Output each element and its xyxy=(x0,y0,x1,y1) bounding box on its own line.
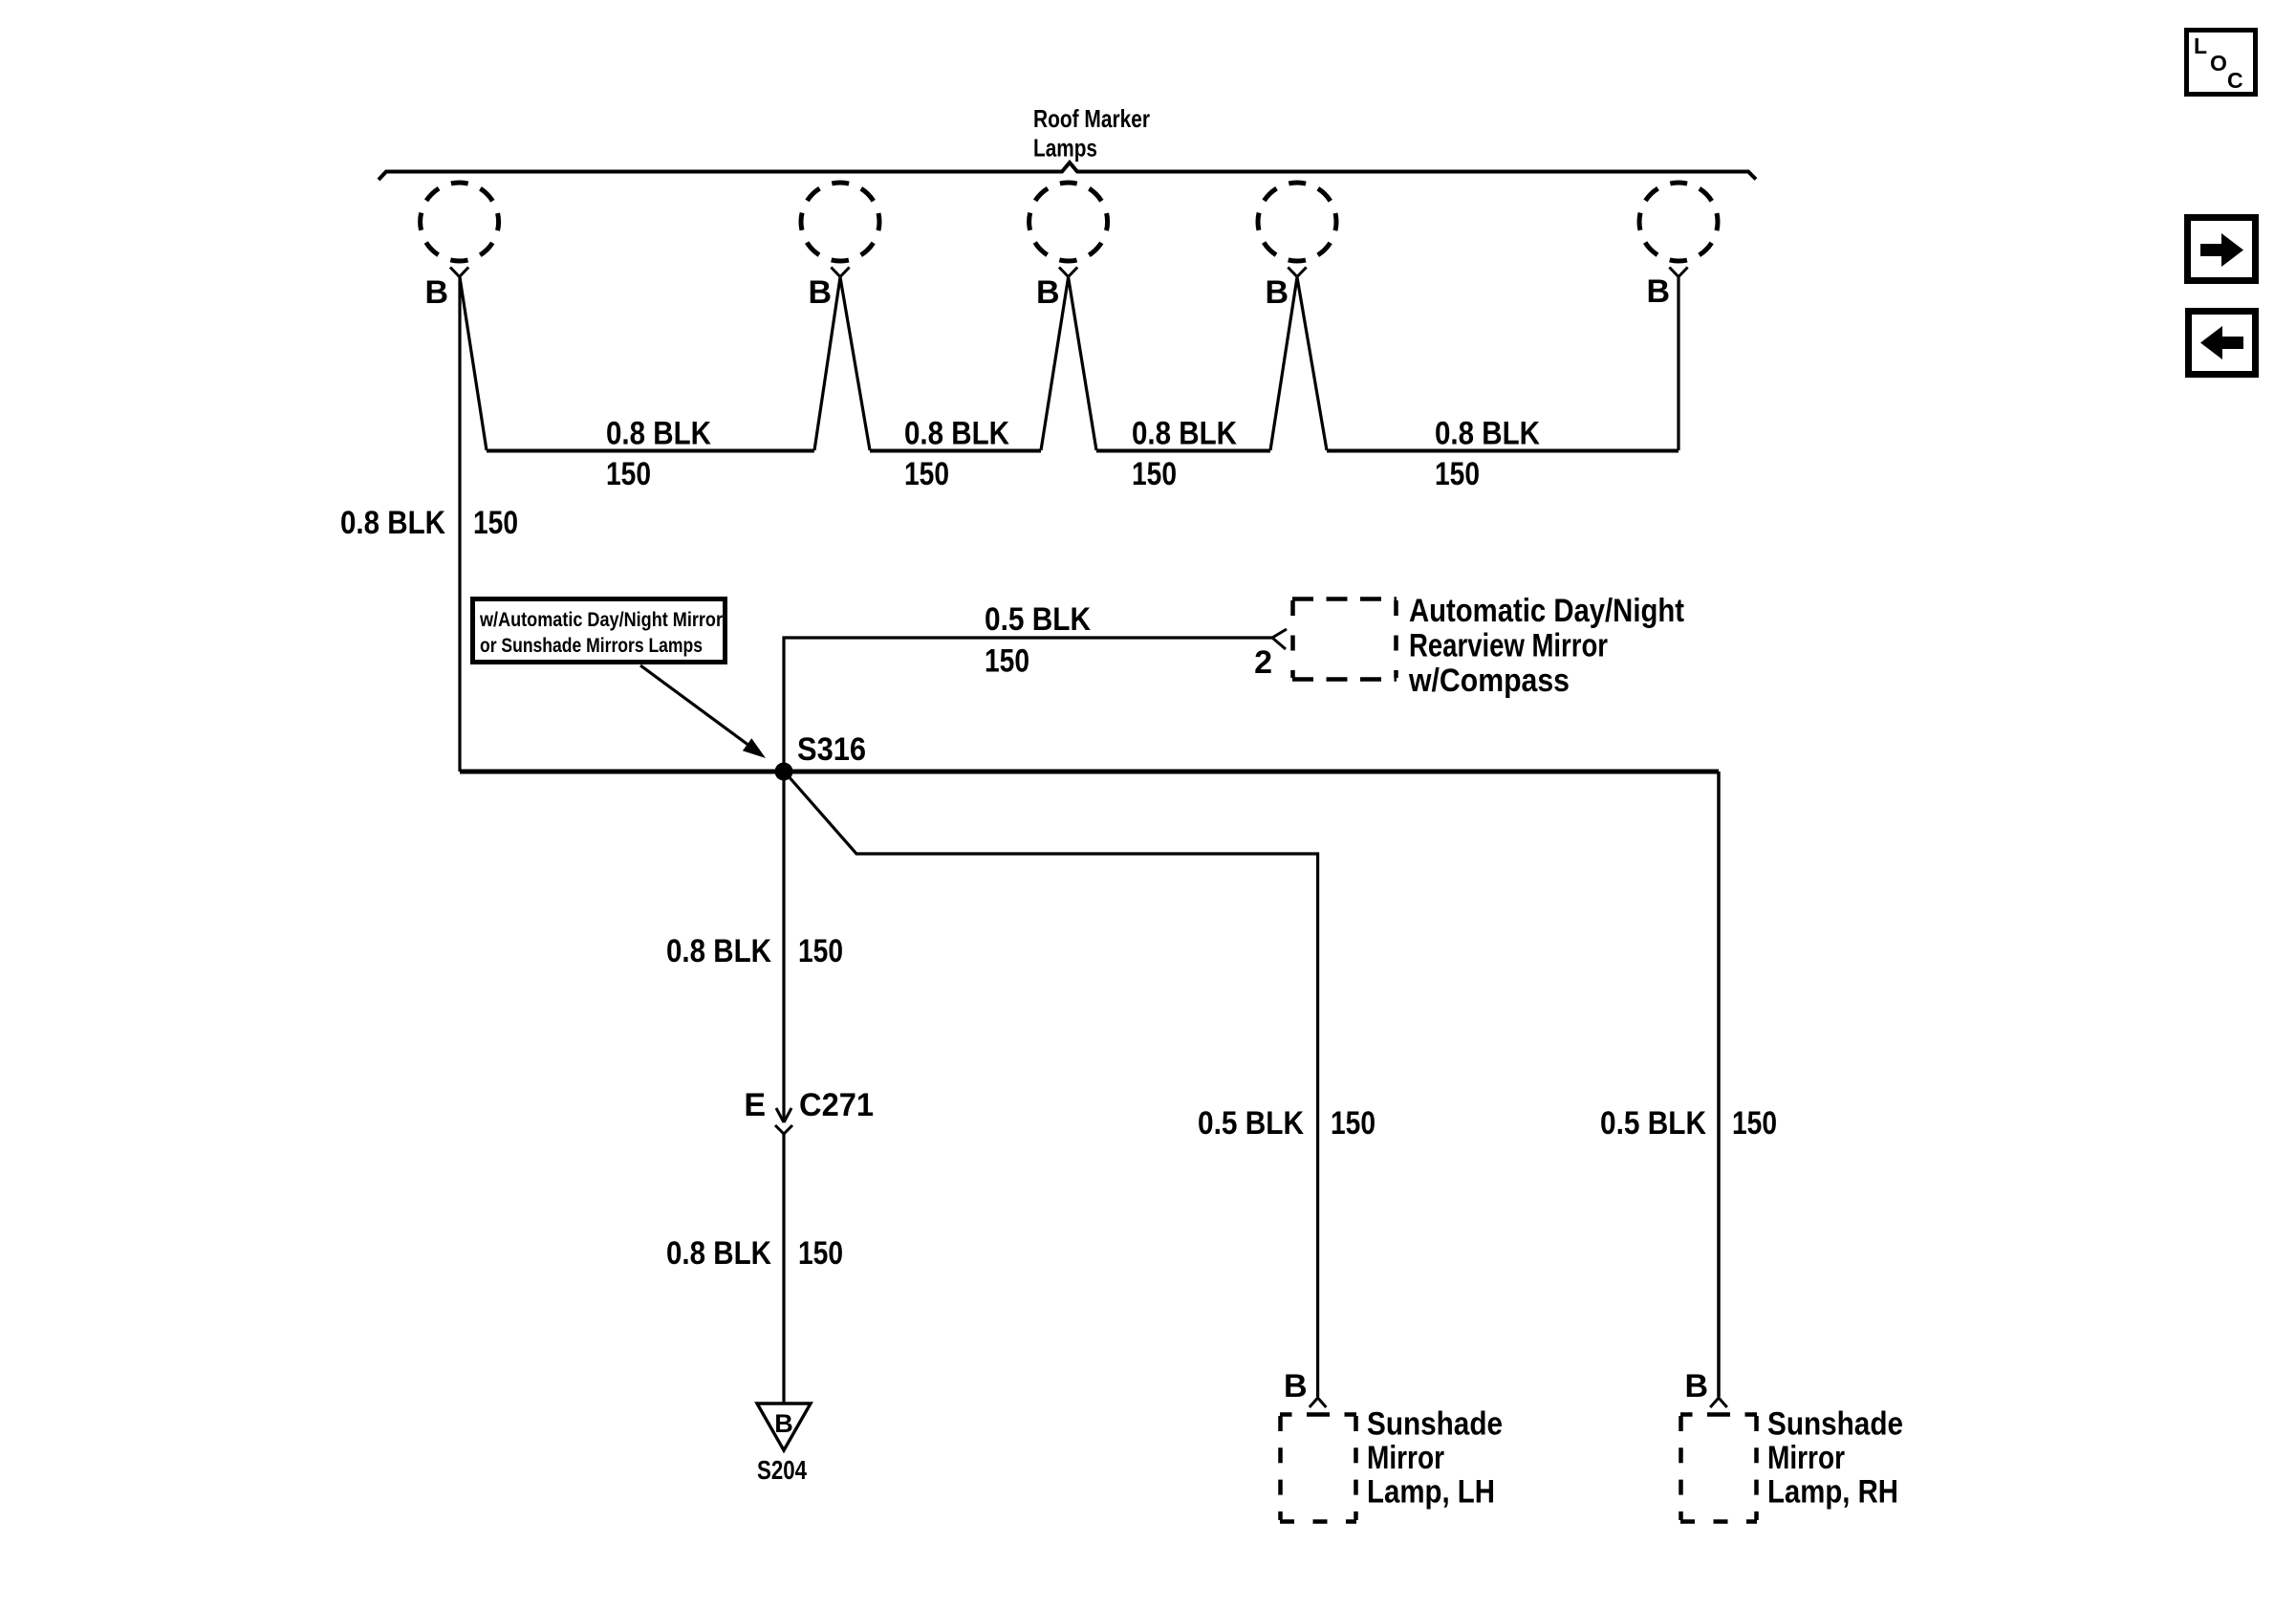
svg-text:2: 2 xyxy=(1254,644,1272,681)
svg-text:B: B xyxy=(1036,274,1060,311)
svg-text:0.5 BLK: 0.5 BLK xyxy=(1600,1105,1706,1142)
svg-text:0.5 BLK: 0.5 BLK xyxy=(1198,1105,1304,1142)
svg-text:Rearview Mirror: Rearview Mirror xyxy=(1409,628,1608,664)
svg-text:0.8 BLK: 0.8 BLK xyxy=(666,1235,771,1272)
svg-text:L: L xyxy=(2194,33,2207,58)
svg-text:C: C xyxy=(2227,68,2243,93)
svg-text:150: 150 xyxy=(904,456,949,492)
svg-text:Sunshade: Sunshade xyxy=(1367,1406,1503,1443)
svg-text:S204: S204 xyxy=(757,1455,807,1485)
svg-text:150: 150 xyxy=(1132,456,1177,492)
svg-text:150: 150 xyxy=(473,505,518,541)
svg-text:0.5 BLK: 0.5 BLK xyxy=(985,601,1091,638)
svg-text:w/Automatic Day/Night Mirror: w/Automatic Day/Night Mirror xyxy=(479,609,723,631)
svg-text:O: O xyxy=(2210,51,2227,76)
svg-text:150: 150 xyxy=(798,933,843,969)
svg-text:w/Compass: w/Compass xyxy=(1408,663,1570,699)
svg-text:B: B xyxy=(424,274,448,311)
svg-text:Lamps: Lamps xyxy=(1033,134,1097,163)
svg-text:Automatic Day/Night: Automatic Day/Night xyxy=(1409,593,1684,629)
svg-text:Mirror: Mirror xyxy=(1767,1440,1845,1476)
svg-text:B: B xyxy=(808,274,832,311)
svg-text:0.8 BLK: 0.8 BLK xyxy=(1435,416,1540,452)
svg-text:0.8 BLK: 0.8 BLK xyxy=(904,416,1009,452)
svg-text:Lamp, LH: Lamp, LH xyxy=(1367,1474,1495,1511)
svg-text:B: B xyxy=(1265,274,1289,311)
svg-text:S316: S316 xyxy=(797,731,866,768)
svg-text:150: 150 xyxy=(798,1235,843,1272)
svg-text:Roof Marker: Roof Marker xyxy=(1033,104,1150,133)
svg-text:B: B xyxy=(1284,1368,1308,1404)
svg-text:B: B xyxy=(774,1409,793,1438)
svg-text:0.8 BLK: 0.8 BLK xyxy=(606,416,711,452)
svg-text:0.8 BLK: 0.8 BLK xyxy=(666,933,771,969)
svg-text:C271: C271 xyxy=(799,1087,874,1123)
svg-text:Sunshade: Sunshade xyxy=(1767,1406,1903,1443)
svg-text:150: 150 xyxy=(1435,456,1480,492)
svg-text:B: B xyxy=(1646,273,1670,310)
svg-text:Mirror: Mirror xyxy=(1367,1440,1444,1476)
svg-text:150: 150 xyxy=(985,643,1029,680)
svg-text:150: 150 xyxy=(606,456,651,492)
svg-text:0.8 BLK: 0.8 BLK xyxy=(340,505,445,541)
svg-text:150: 150 xyxy=(1331,1105,1375,1142)
svg-text:0.8 BLK: 0.8 BLK xyxy=(1132,416,1237,452)
svg-text:E: E xyxy=(744,1087,766,1123)
svg-text:B: B xyxy=(1684,1368,1708,1404)
svg-text:Lamp, RH: Lamp, RH xyxy=(1767,1474,1898,1511)
svg-text:150: 150 xyxy=(1732,1105,1777,1142)
svg-text:or Sunshade Mirrors Lamps: or Sunshade Mirrors Lamps xyxy=(480,635,703,657)
